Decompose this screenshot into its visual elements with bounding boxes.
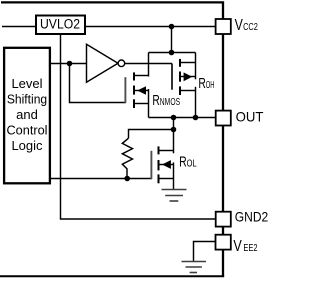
svg-text:Shifting: Shifting: [7, 92, 47, 107]
source vertical down to ground: [173, 162, 175, 189]
terminal GND2: [216, 212, 231, 227]
wire top supply across transistors: [149, 52, 196, 54]
channel dashes: [133, 72, 135, 80]
terminal OUT: [216, 111, 231, 126]
svg-text:Level: Level: [11, 76, 42, 91]
channel dashes: [158, 146, 160, 154]
svg-text:and: and: [16, 107, 38, 122]
wire UVLO2 input from left: [2, 26, 36, 28]
wire right rail VCC2 to OUT: [222, 34, 224, 111]
gate bar: [171, 64, 173, 90]
node junction resistor top: [171, 127, 177, 133]
node junction on inverter input: [67, 61, 73, 67]
node junction OUT / ROL drain: [171, 115, 177, 121]
svg-text:Control: Control: [7, 122, 48, 137]
node junction on top supply wire: [169, 50, 175, 56]
svg-text:OH: OH: [206, 80, 215, 91]
body stub with arrow: [134, 90, 149, 92]
wire VCC2 top rail: [1, 2, 223, 19]
source vertical to OUT: [148, 89, 150, 118]
source stub top: [180, 62, 196, 64]
ground under ROL: [162, 190, 187, 202]
UVLO2 block: [36, 16, 85, 35]
wire bottom rail: [0, 275, 224, 277]
svg-text:OL: OL: [187, 158, 197, 169]
transistor Q1 ROH PMOS pull-up: [172, 53, 196, 118]
svg-text:R: R: [152, 92, 160, 109]
drain vertical to OUT: [195, 87, 197, 118]
wire right rail GND2 to VEE2: [222, 227, 224, 235]
wire UVLO2 down to GND2: [61, 35, 216, 220]
terminal VEE2: [216, 235, 231, 250]
svg-text:UVLO2: UVLO2: [40, 17, 80, 32]
gate bar: [124, 77, 126, 103]
svg-text:V: V: [235, 17, 243, 34]
wire UVLO2 to VCC2 terminal: [85, 26, 216, 28]
source stub: [159, 178, 174, 180]
op-amp inverter U1: [87, 44, 125, 82]
drain stub: [134, 75, 149, 77]
source vertical to supply: [195, 53, 197, 80]
Level Shifting and Control Logic block: [4, 48, 50, 184]
gate bar: [150, 151, 152, 179]
drain stub bottom: [180, 90, 196, 92]
svg-text:NMOS: NMOS: [160, 97, 181, 108]
terminal VCC2: [216, 19, 231, 34]
wire VEE2 to ground: [194, 242, 216, 262]
svg-text:EE2: EE2: [243, 243, 258, 254]
wire right rail VEE2 to bottom: [222, 250, 224, 277]
wire logic output to inverter input: [49, 63, 86, 65]
wire VCC2 feed down to output stage: [171, 27, 173, 54]
channel dashes: [179, 59, 181, 67]
ground VEE2: [182, 262, 207, 273]
wire right rail OUT to GND2: [222, 126, 224, 212]
wire NMOS gate feed (L-shape down and right): [70, 64, 127, 103]
drain stub: [159, 150, 174, 152]
transistor Q2 ROL pull-down: [151, 146, 173, 189]
body stub with arrow: [180, 76, 196, 78]
node junction OUT / PMOS drain: [193, 115, 199, 121]
svg-text:OUT: OUT: [236, 108, 264, 124]
wire OUT node: [149, 117, 216, 119]
wire logic output 2 to ROL gate: [49, 178, 152, 180]
body stub with arrow: [159, 164, 174, 166]
svg-text:CC2: CC2: [243, 22, 258, 33]
resistor R1 top lead: [129, 130, 174, 139]
svg-text:GND2: GND2: [235, 209, 269, 225]
svg-text:V: V: [233, 238, 242, 255]
node junction on VCC2 sense line: [169, 24, 175, 30]
transistor M1 RNMOS pull-up: [125, 53, 148, 118]
drain vertical to supply: [148, 53, 150, 77]
svg-text:Logic: Logic: [11, 138, 43, 153]
resistor R1 zigzag: [122, 138, 132, 178]
node junction resistor bottom: [124, 176, 130, 182]
source stub: [134, 103, 149, 105]
wire inverter output to PMOS gate: [125, 63, 172, 65]
wire OUT down to ROL drain: [173, 118, 175, 154]
